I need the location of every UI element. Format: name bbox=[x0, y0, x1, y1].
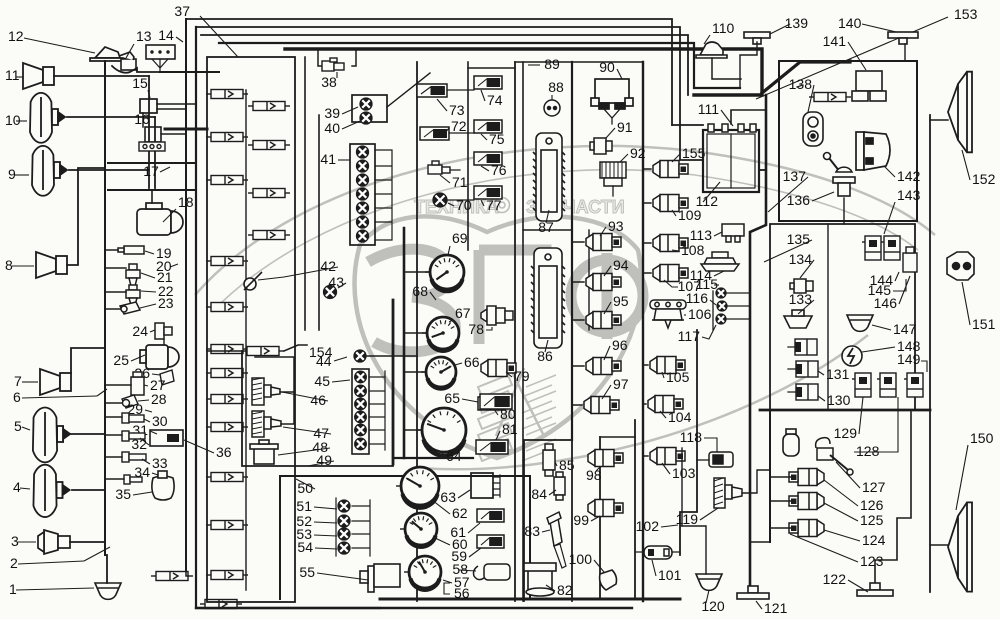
marker lamp 120 bbox=[696, 574, 722, 590]
svg-text:88: 88 bbox=[548, 79, 564, 95]
wire roof lamp 140 stem bbox=[904, 44, 906, 61]
svg-text:147: 147 bbox=[893, 321, 917, 337]
wire 122 drop bbox=[875, 412, 911, 583]
svg-text:122: 122 bbox=[823, 571, 847, 587]
ammeter 69 bbox=[425, 255, 464, 291]
wire relay 15 to frame bbox=[157, 104, 196, 109]
battery terminals bbox=[708, 124, 756, 132]
svg-text:129: 129 bbox=[834, 425, 858, 441]
connector on panel strip left column bbox=[206, 257, 248, 266]
wire 98/99/100 box bbox=[600, 420, 635, 597]
wire stubs 19-23 bbox=[105, 250, 126, 309]
connector on panel strip left column bbox=[206, 423, 248, 432]
svg-text:94: 94 bbox=[613, 257, 629, 273]
fuse 76 bbox=[474, 152, 502, 165]
wire horn 11 to trunk bbox=[54, 75, 149, 77]
cluster 41 comb bbox=[375, 150, 392, 240]
wire headlamp 4 bbox=[72, 489, 105, 491]
connector on panel strip left column bbox=[206, 473, 248, 482]
svg-text:149: 149 bbox=[897, 351, 921, 367]
toggle switch 42 bbox=[244, 272, 262, 290]
plug 129 bbox=[852, 373, 871, 397]
connector 105 bbox=[650, 357, 685, 374]
connector 97 bbox=[584, 397, 619, 414]
svg-text:51: 51 bbox=[296, 498, 312, 514]
svg-text:6: 6 bbox=[13, 389, 21, 405]
wire stubs to gauges bbox=[404, 272, 431, 430]
wire 154 with connector bbox=[207, 350, 242, 352]
central harness rail 1 bbox=[304, 57, 306, 330]
svg-text:135: 135 bbox=[787, 231, 811, 247]
bracket 138 bbox=[803, 112, 823, 146]
svg-text:112: 112 bbox=[696, 193, 719, 209]
svg-text:131: 131 bbox=[826, 366, 850, 382]
speaker 150 bbox=[948, 502, 972, 591]
lamp box 39/40 bbox=[352, 95, 387, 122]
svg-text:12: 12 bbox=[8, 28, 24, 44]
svg-text:138: 138 bbox=[789, 76, 813, 92]
ignition switch 136 bbox=[824, 153, 856, 197]
switch 16 bbox=[145, 127, 161, 142]
connector 38 under bus bbox=[318, 51, 322, 66]
svg-text:105: 105 bbox=[666, 369, 690, 385]
svg-text:56: 56 bbox=[454, 585, 470, 601]
svg-text:82: 82 bbox=[557, 582, 573, 598]
svg-text:142: 142 bbox=[897, 168, 921, 184]
wire cylinder 18 stem bbox=[151, 190, 153, 203]
svg-text:42: 42 bbox=[320, 258, 336, 274]
svg-text:104: 104 bbox=[668, 409, 692, 425]
svg-text:123: 123 bbox=[860, 553, 884, 569]
headlight switch 46 bbox=[252, 378, 280, 405]
svg-text:71: 71 bbox=[452, 174, 468, 190]
svg-text:151: 151 bbox=[972, 316, 996, 332]
box 50 outline bbox=[280, 476, 530, 599]
wire trunk 2 (x152) bbox=[148, 76, 150, 188]
svg-text:54: 54 bbox=[297, 539, 313, 555]
label 37 bbox=[200, 16, 238, 57]
svg-text:1: 1 bbox=[9, 581, 17, 597]
connector 99 bbox=[588, 500, 623, 517]
plug 118 bbox=[709, 452, 733, 467]
svg-text:83: 83 bbox=[524, 523, 540, 539]
wire thick feed from 16 to panel bbox=[161, 133, 186, 135]
wire headlamp 5 bbox=[71, 433, 105, 435]
sensor 28 bbox=[122, 395, 138, 408]
svg-text:8: 8 bbox=[5, 257, 13, 273]
wire lamp 110 stem bbox=[712, 58, 741, 79]
warning lamp in cluster 41 bbox=[357, 216, 369, 228]
warning lamp in cluster 41 bbox=[357, 202, 369, 214]
divider x=828 in lower right box bbox=[827, 224, 829, 410]
PCB connector 87 bbox=[536, 133, 562, 221]
fuse 61 bbox=[477, 509, 504, 522]
lamp in cluster 45 bbox=[355, 385, 367, 397]
fuel tank unit 48 bbox=[250, 440, 278, 464]
lever switch 127 bbox=[816, 438, 853, 475]
svg-text:28: 28 bbox=[151, 391, 167, 407]
connector at bottom of left frame bbox=[151, 572, 193, 581]
svg-text:67: 67 bbox=[455, 305, 471, 321]
lamp 12 (bonnet lamp) bbox=[90, 47, 125, 61]
flasher 27 bbox=[131, 372, 144, 395]
wire alternator 119 bbox=[742, 470, 770, 493]
relay 15 bbox=[140, 99, 157, 113]
fuse column box top bbox=[468, 67, 515, 69]
spark plug 83 bbox=[547, 512, 566, 568]
svg-text:97: 97 bbox=[613, 376, 629, 392]
svg-text:68: 68 bbox=[412, 283, 428, 299]
ignition coil 82 bbox=[524, 563, 556, 596]
connector 124 bbox=[789, 520, 824, 537]
generator box outline bbox=[779, 61, 917, 221]
svg-text:90: 90 bbox=[599, 59, 615, 75]
lamp cluster 45 bbox=[352, 369, 369, 454]
wire lamp 44 to rail bbox=[367, 355, 417, 357]
fuse 73 bbox=[417, 84, 447, 97]
svg-text:50: 50 bbox=[297, 480, 313, 496]
buzzer 58 bbox=[474, 564, 511, 580]
wire from lamp 12 down trunk bbox=[104, 61, 106, 555]
distributor 106 bbox=[650, 300, 686, 328]
pressure gauge 66 bbox=[421, 357, 456, 389]
divider between 87 and 86 bbox=[523, 229, 572, 231]
connector on panel strip right column bbox=[248, 141, 290, 150]
wire plug 118 bbox=[697, 459, 709, 461]
fuse 75 bbox=[474, 120, 502, 133]
svg-text:125: 125 bbox=[860, 512, 884, 528]
roof lamp 139 bbox=[744, 32, 770, 44]
wire 15 to 16 bbox=[142, 113, 144, 127]
panel harness strip box bbox=[207, 57, 295, 602]
svg-text:66: 66 bbox=[464, 354, 480, 370]
svg-text:153: 153 bbox=[954, 6, 978, 22]
horn relay 92 (finned) bbox=[600, 162, 626, 186]
wire stubs 103-109,155 bbox=[643, 169, 651, 456]
warning lamp in cluster 41 bbox=[357, 174, 369, 186]
wire top bus line 3 bbox=[201, 35, 688, 95]
connector 109 bbox=[653, 195, 688, 212]
heavy rail at cluster 45 bbox=[392, 300, 395, 464]
svg-text:69: 69 bbox=[452, 230, 468, 246]
pilot lamp 54 bbox=[338, 542, 350, 554]
svg-text:64: 64 bbox=[446, 448, 462, 464]
oil gauge 62 bbox=[396, 467, 439, 508]
horn 8 bbox=[36, 252, 67, 278]
wires battery region bbox=[672, 124, 703, 126]
wire stubs 27-35 bbox=[105, 385, 131, 479]
connector 155 bbox=[653, 161, 688, 178]
connector on panel strip left column bbox=[206, 395, 248, 404]
wire top bus line 4 bbox=[219, 43, 740, 88]
svg-text:113: 113 bbox=[690, 227, 713, 243]
svg-text:98: 98 bbox=[586, 467, 602, 483]
pilot lamp 51 bbox=[338, 500, 350, 512]
svg-text:72: 72 bbox=[451, 118, 467, 134]
headlamp 10 bbox=[30, 93, 65, 143]
horn 11 bbox=[23, 63, 54, 89]
svg-text:33: 33 bbox=[152, 455, 168, 471]
svg-text:38: 38 bbox=[321, 74, 337, 90]
heavy separator at y=410 bbox=[760, 409, 930, 412]
connector on panel strip left column bbox=[206, 176, 248, 185]
wire gauge box bottom bbox=[393, 457, 473, 459]
lamp bracket 115-117 bbox=[713, 291, 750, 330]
svg-text:4: 4 bbox=[13, 479, 21, 495]
sensor 21 bbox=[126, 264, 140, 286]
svg-text:35: 35 bbox=[115, 486, 131, 502]
svg-text:89: 89 bbox=[544, 56, 560, 72]
wires from relay 90 bbox=[604, 109, 620, 124]
lamp 117 bbox=[716, 314, 726, 324]
central rail fuse column right bbox=[514, 62, 516, 601]
headlamp 9 bbox=[32, 146, 67, 196]
lamp 43 bbox=[324, 286, 337, 299]
wiper motor 142 bbox=[856, 132, 890, 170]
svg-text:65: 65 bbox=[444, 390, 460, 406]
fuse 19 bbox=[118, 246, 144, 254]
temp gauge 60 bbox=[400, 513, 437, 547]
svg-text:124: 124 bbox=[862, 532, 886, 548]
svg-text:77: 77 bbox=[486, 197, 502, 213]
wire top bus line 1 bbox=[186, 19, 672, 125]
wire roof lamp 139 stem bbox=[740, 42, 757, 88]
lamp 44 bbox=[354, 350, 366, 362]
connector 107 bbox=[653, 265, 688, 282]
central harness rail 2 bbox=[318, 115, 320, 330]
svg-text:76: 76 bbox=[491, 162, 507, 178]
wire link y542 to box edge bbox=[750, 541, 770, 543]
brake cylinder 18 bbox=[137, 203, 183, 235]
svg-text:36: 36 bbox=[216, 444, 232, 460]
lamp in cluster 45 bbox=[355, 398, 367, 410]
svg-text:45: 45 bbox=[314, 373, 330, 389]
connector 126 bbox=[789, 469, 824, 486]
svg-text:32: 32 bbox=[131, 436, 147, 452]
speedometer 64 bbox=[417, 408, 466, 456]
plug 146 bbox=[903, 247, 917, 272]
svg-text:128: 128 bbox=[856, 443, 880, 459]
svg-text:18: 18 bbox=[178, 194, 194, 210]
wire headlamp 10 bbox=[67, 116, 155, 118]
decorative watermark (not labelled further) bbox=[195, 146, 935, 469]
warning lamp in cluster 41 bbox=[357, 160, 369, 172]
speaker 152 bbox=[948, 72, 972, 153]
connector on panel strip right column bbox=[248, 189, 290, 198]
lamp 122 bbox=[857, 583, 893, 596]
fuse near 141 bbox=[809, 93, 851, 102]
lamp in cluster 45 bbox=[355, 411, 367, 423]
wire 24-25 connector stub bbox=[163, 339, 165, 345]
svg-text:39: 39 bbox=[324, 105, 340, 121]
label 153 bbox=[756, 17, 948, 99]
pilot lamp 52 bbox=[338, 515, 350, 527]
fuse holder 84 bbox=[554, 472, 565, 500]
connector 79 bbox=[481, 360, 516, 377]
plug 149 bbox=[904, 373, 923, 397]
sensor 78 bbox=[481, 306, 513, 325]
wire 49 bottom of 46 box bbox=[242, 351, 393, 466]
svg-text:7: 7 bbox=[14, 373, 22, 389]
horn button 35 bbox=[152, 471, 174, 500]
svg-text:121: 121 bbox=[764, 600, 788, 616]
fuse 74 bbox=[474, 76, 502, 89]
svg-text:134: 134 bbox=[789, 251, 813, 267]
box right edge of 82 area bbox=[571, 440, 573, 601]
right frame vertical bbox=[929, 115, 931, 592]
fuse 80 bbox=[480, 394, 512, 409]
roof lamp 140 bbox=[888, 32, 918, 44]
plug 143a bbox=[862, 236, 881, 260]
wiper motor 25 bbox=[140, 345, 179, 369]
svg-text:81: 81 bbox=[502, 421, 518, 437]
fuel gauge 67 bbox=[422, 317, 459, 351]
fog lamp 151 bbox=[947, 252, 974, 280]
connector 94 bbox=[586, 274, 621, 291]
pilot lamp 53 bbox=[338, 528, 350, 540]
svg-text:41: 41 bbox=[320, 151, 336, 167]
svg-text:16: 16 bbox=[134, 111, 150, 127]
svg-text:126: 126 bbox=[860, 497, 884, 513]
connector 24 bbox=[155, 323, 172, 339]
svg-text:91: 91 bbox=[617, 119, 633, 135]
lamp 3 (side light) bbox=[38, 530, 70, 554]
fuse 77 bbox=[474, 186, 502, 199]
connector 95 bbox=[586, 312, 621, 329]
alternator 119 bbox=[714, 478, 742, 508]
svg-text:119: 119 bbox=[676, 511, 699, 527]
starter relay 113 bbox=[722, 224, 744, 242]
connector on panel strip right column bbox=[248, 231, 290, 240]
wire bottom frame heavy lower bbox=[196, 607, 632, 609]
sensor 22 bbox=[126, 285, 140, 305]
rear harness rails bbox=[680, 330, 697, 555]
svg-text:73: 73 bbox=[449, 102, 465, 118]
wire right of battery heavy bbox=[750, 95, 766, 586]
wire stubs 93-97 bbox=[572, 242, 584, 405]
wire top bus line 2 bbox=[196, 27, 680, 125]
sensor 30 bbox=[122, 413, 144, 423]
svg-text:108: 108 bbox=[681, 242, 705, 258]
svg-text:75: 75 bbox=[489, 131, 505, 147]
sub box around 46/47 bbox=[255, 357, 294, 424]
connector 125 bbox=[789, 493, 824, 510]
wire lamp 3 bbox=[70, 541, 105, 543]
fuse 81 bbox=[476, 440, 508, 454]
headlamp 4 bbox=[33, 465, 69, 517]
svg-text:136: 136 bbox=[787, 192, 811, 208]
lamp 39 bbox=[360, 98, 372, 110]
relay 63 bbox=[471, 473, 493, 498]
svg-text:139: 139 bbox=[785, 15, 809, 31]
heavy right vertical bbox=[769, 410, 771, 542]
fuel filter 127 capsule bbox=[783, 429, 799, 456]
wire 13/14 junction to bus bbox=[112, 66, 219, 73]
svg-text:143: 143 bbox=[897, 187, 921, 203]
wire fuse column stubs bbox=[447, 90, 474, 200]
warning lamp in cluster 41 bbox=[357, 230, 369, 242]
svg-text:62: 62 bbox=[452, 505, 468, 521]
svg-text:11: 11 bbox=[5, 67, 20, 83]
fuse 59 bbox=[477, 535, 504, 548]
plug 132 bbox=[795, 339, 817, 355]
rail x=589 bbox=[588, 230, 590, 330]
svg-text:2: 2 bbox=[10, 555, 18, 571]
sensor 33 bbox=[122, 452, 146, 462]
connector 96 bbox=[586, 358, 621, 375]
lamp in cluster 45 bbox=[355, 438, 367, 450]
lamp socket 101 bbox=[644, 546, 672, 559]
svg-text:74: 74 bbox=[487, 92, 503, 108]
fuse 72 bbox=[420, 127, 449, 140]
connector 141 bbox=[852, 71, 886, 101]
svg-text:130: 130 bbox=[827, 392, 851, 408]
box around 82-85 bbox=[524, 440, 572, 601]
svg-text:17: 17 bbox=[143, 163, 159, 179]
svg-text:92: 92 bbox=[630, 145, 646, 161]
svg-text:102: 102 bbox=[636, 518, 660, 534]
lamp 116 bbox=[717, 301, 727, 311]
cluster 45 comb bbox=[369, 371, 385, 450]
PCB connector 86 bbox=[534, 248, 562, 348]
connector 98 bbox=[588, 450, 623, 467]
svg-text:37: 37 bbox=[174, 3, 190, 19]
svg-text:106: 106 bbox=[688, 306, 712, 322]
fuse holder 85 bbox=[543, 444, 555, 476]
svg-text:118: 118 bbox=[680, 429, 703, 445]
wire 136 stem bbox=[843, 198, 845, 224]
box 36 bbox=[150, 430, 183, 446]
connector 71 bbox=[428, 161, 450, 174]
svg-text:44: 44 bbox=[316, 353, 332, 369]
svg-text:95: 95 bbox=[613, 293, 629, 309]
connector on panel strip right column bbox=[248, 102, 290, 111]
wire bottom frame heavy upper bbox=[380, 598, 680, 601]
wire speaker 150 bbox=[930, 544, 948, 546]
svg-text:141: 141 bbox=[823, 33, 847, 49]
svg-text:25: 25 bbox=[113, 352, 129, 368]
svg-text:93: 93 bbox=[608, 218, 624, 234]
socket 88 bbox=[544, 100, 560, 116]
rail for 93-97 connectors bbox=[571, 62, 573, 440]
svg-text:96: 96 bbox=[612, 337, 628, 353]
svg-text:140: 140 bbox=[838, 15, 862, 31]
connector on panel strip left column bbox=[206, 303, 248, 312]
svg-text:78: 78 bbox=[468, 321, 484, 337]
headlamp 5 bbox=[33, 407, 70, 462]
central rail right of gauges bbox=[467, 62, 469, 250]
svg-text:13: 13 bbox=[136, 28, 152, 44]
svg-text:80: 80 bbox=[500, 406, 516, 422]
wire 17 pair bbox=[108, 162, 196, 164]
svg-text:116: 116 bbox=[686, 290, 709, 306]
svg-text:99: 99 bbox=[573, 512, 589, 528]
lamp in cluster 45 bbox=[355, 424, 367, 436]
gauge 57/56 bbox=[404, 556, 441, 590]
connector 93 bbox=[586, 234, 621, 251]
connector 108 bbox=[653, 235, 688, 252]
connector on panel strip left column bbox=[206, 345, 248, 354]
svg-text:3: 3 bbox=[11, 533, 19, 549]
warning lamp in cluster 41 bbox=[357, 188, 369, 200]
rubber bulb 100 bbox=[600, 570, 617, 590]
horn 114 (dish) bbox=[701, 252, 739, 271]
svg-text:5: 5 bbox=[14, 418, 22, 434]
wire left frame outer bbox=[185, 19, 187, 570]
box around 88-92 bbox=[515, 61, 643, 63]
wire thick main feed bbox=[285, 49, 762, 95]
wire stubs 124-126 bbox=[770, 477, 792, 528]
